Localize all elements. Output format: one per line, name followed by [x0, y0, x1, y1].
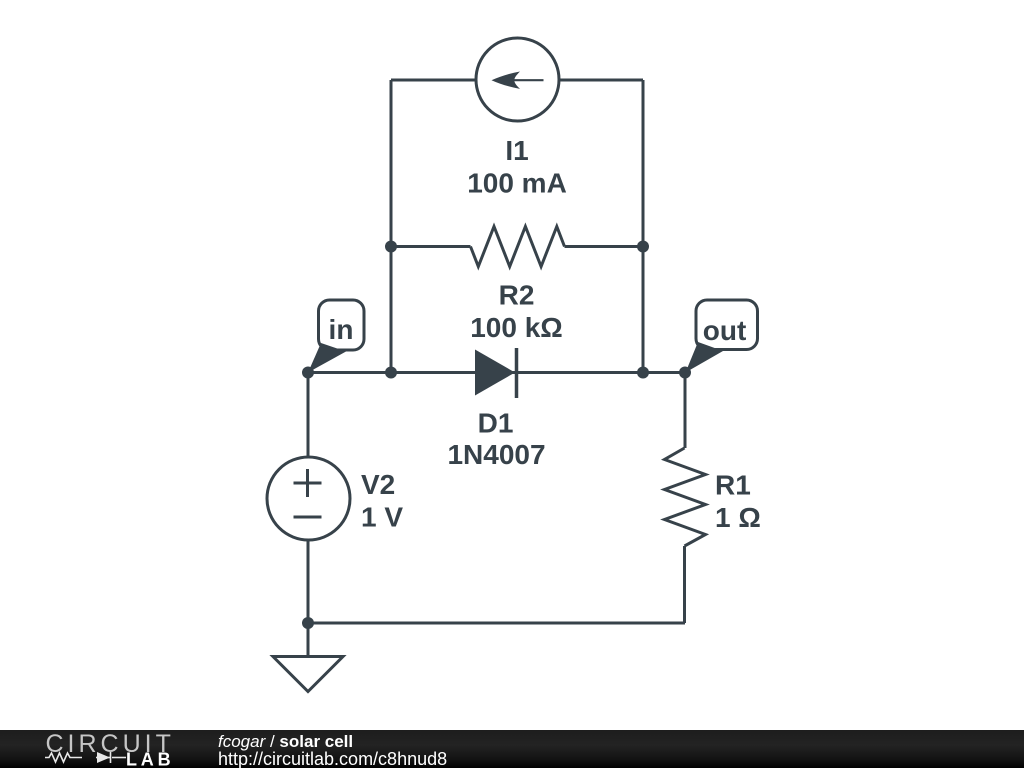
resistor R1 zigzag body	[665, 448, 706, 546]
ground triangle	[273, 657, 343, 692]
wire R1 bottom lead	[683, 546, 686, 623]
junction dot left rail / R2	[385, 241, 397, 253]
svg-text:I1: I1	[505, 135, 528, 166]
node out balloon pointer	[686, 342, 724, 373]
wire right rail vertical	[642, 80, 645, 373]
svg-text:R1: R1	[715, 470, 751, 501]
current source I1 arrow shaft	[500, 79, 544, 81]
junction dot right rail / main wire	[637, 367, 649, 379]
svg-text:in: in	[329, 314, 354, 345]
junction dot left rail / main wire	[385, 367, 397, 379]
voltage source V2 minus sign	[294, 516, 322, 519]
svg-text:1N4007: 1N4007	[447, 439, 545, 470]
logo resistor-diode squiggle	[45, 752, 126, 763]
junction dot right rail / R2	[637, 241, 649, 253]
node out balloon box	[696, 300, 758, 350]
wire V2 top lead	[307, 373, 310, 458]
svg-text:1 Ω: 1 Ω	[715, 502, 761, 533]
node in balloon box	[319, 300, 365, 350]
wire R2 left lead	[391, 245, 471, 248]
node dot out	[679, 367, 691, 379]
ground stem	[307, 623, 310, 657]
footer bar	[0, 730, 1024, 768]
svg-text:1 V: 1 V	[361, 502, 403, 533]
wire V2 bottom lead	[307, 540, 310, 623]
node dot in	[302, 367, 314, 379]
wire left rail vertical	[390, 80, 393, 373]
wire top-right from I1 to right rail corner	[559, 79, 643, 82]
svg-text:V2: V2	[361, 469, 395, 500]
svg-text:100 kΩ: 100 kΩ	[470, 312, 563, 343]
wire top-left from left rail corner to I1	[391, 79, 476, 82]
svg-text:out: out	[703, 315, 747, 346]
diode D1 triangle	[475, 350, 515, 396]
CircuitLab logo wordmark	[0, 730, 200, 768]
voltage source V2 circle	[267, 457, 350, 540]
voltage source V2 plus sign	[294, 469, 322, 497]
svg-text:LAB: LAB	[126, 750, 174, 769]
svg-text:100 mA: 100 mA	[467, 168, 567, 199]
current source I1 arrow head	[492, 72, 521, 89]
node in balloon pointer	[308, 343, 346, 373]
footer title: fcogar / solar cell	[218, 732, 353, 752]
wire bottom horizontal	[308, 622, 685, 625]
wire R1 top lead	[684, 373, 687, 449]
diode D1 cathode bar	[515, 348, 519, 398]
footer url	[218, 749, 447, 770]
resistor R2 zigzag body	[471, 227, 565, 267]
wire R2 right lead	[565, 245, 644, 248]
wire main horizontal (in to out)	[308, 371, 685, 374]
svg-text:D1: D1	[478, 408, 514, 439]
svg-text:R2: R2	[499, 280, 535, 311]
current source I1 circle	[476, 38, 559, 121]
junction dot bottom left	[302, 617, 314, 629]
